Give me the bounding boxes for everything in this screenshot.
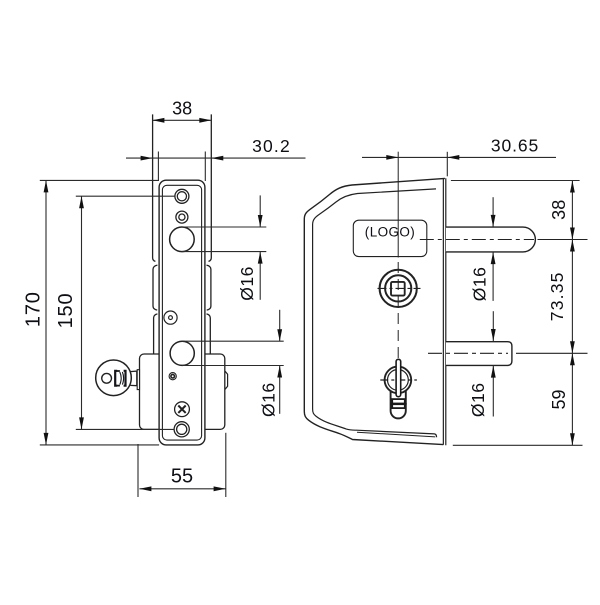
svg-text:Ø16: Ø16 [237,266,257,301]
svg-text:Ø16: Ø16 [470,267,490,302]
faceplate inner [162,185,201,440]
dim 150 [76,196,175,429]
key head hole [102,373,112,383]
top pin (round end) [446,227,535,252]
svg-text:Ø16: Ø16 [468,383,488,418]
latch bump on case right side [225,371,228,390]
bottom pin centerline [428,352,588,354]
svg-text:59: 59 [549,389,569,409]
small ringed dot [169,373,176,380]
key (side view) [96,360,140,396]
bottom pin (flat end) [446,342,512,366]
key head [96,360,132,396]
svg-text:30.2: 30.2 [252,136,291,156]
svg-text:30.65: 30.65 [491,135,539,155]
lower Ø16 hole [170,341,194,365]
svg-text:Ø16: Ø16 [259,382,279,417]
chain arrows [570,181,575,446]
dim 30.2 [126,152,306,182]
svg-text:150: 150 [55,293,77,329]
dim Ø16 (upper hole) [182,195,266,299]
upper Ø16 hole [170,227,195,252]
right dimension chain: ext lines [451,181,583,446]
key bow sticking up [396,359,401,396]
second small hole [176,211,188,223]
svg-text:55: 55 [171,465,193,487]
bottom fold middle line [357,432,435,437]
adjuster circle with pin [164,311,177,324]
top pin centerline [420,239,588,241]
svg-text:38: 38 [549,200,569,220]
lock body inner outline [313,189,437,437]
svg-text:(LOGO): (LOGO) [365,225,415,240]
back plate seen edge-on (right) [443,178,445,445]
cross screw [175,402,190,417]
key code plates [390,399,406,408]
faceplate outer [159,180,205,445]
dim Ø16 (top pin) [492,197,494,301]
dim Ø16 (bottom pin) [492,311,494,416]
LOGO box [353,220,427,256]
spindle (square follower) [378,270,421,307]
dim 30.65 [362,152,556,177]
top screw hole [175,189,189,203]
dim 55 [138,433,226,497]
gate post right edge (with break marks) [207,114,212,354]
dim 170 [40,180,159,445]
dim 38 (top) [152,119,211,121]
cylinder nose [137,370,139,390]
svg-text:38: 38 [172,99,192,119]
gate post left edge (with break marks) [153,114,158,354]
key neck [130,371,137,386]
lock case (side view, behind plate) [140,354,225,429]
bottom screw hole [174,422,189,437]
euro cylinder with key [380,367,417,419]
key head logo glyph [115,371,125,386]
svg-text:73.35: 73.35 [547,271,567,321]
vertical centerline [397,152,399,358]
lock body outer outline [304,178,445,444]
dim Ø16 (lower hole) [182,310,284,414]
svg-text:170: 170 [23,291,45,327]
